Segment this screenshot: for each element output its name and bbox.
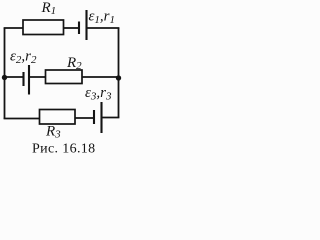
battery E1 short plate <box>78 22 80 35</box>
wire: bottom branch right segment <box>102 117 120 119</box>
node: right junction <box>116 75 121 80</box>
wire: middle branch right segment <box>82 76 119 78</box>
resistor R3 <box>40 110 76 125</box>
wire: bottom branch middle segment <box>75 117 94 119</box>
wire: left rail <box>4 28 6 119</box>
resistor R1 <box>23 20 64 35</box>
node: left junction <box>2 75 7 80</box>
battery E2 long plate <box>28 65 30 95</box>
wire: right rail <box>118 28 120 118</box>
svg-text:Рис. 16.18: Рис. 16.18 <box>32 142 96 157</box>
battery E3 short plate <box>93 110 95 124</box>
battery E3 long plate <box>100 102 102 133</box>
wire: top branch left segment <box>4 27 24 29</box>
wire: middle branch left segment <box>5 76 24 78</box>
battery E2 short plate <box>22 72 24 86</box>
resistor R2 <box>46 70 83 84</box>
wire: top branch middle segment <box>64 27 79 29</box>
wire: middle branch center segment <box>29 76 46 78</box>
wire: top branch right segment <box>87 27 120 29</box>
battery E1 long plate <box>85 10 87 40</box>
wire: bottom branch left segment <box>4 118 40 120</box>
